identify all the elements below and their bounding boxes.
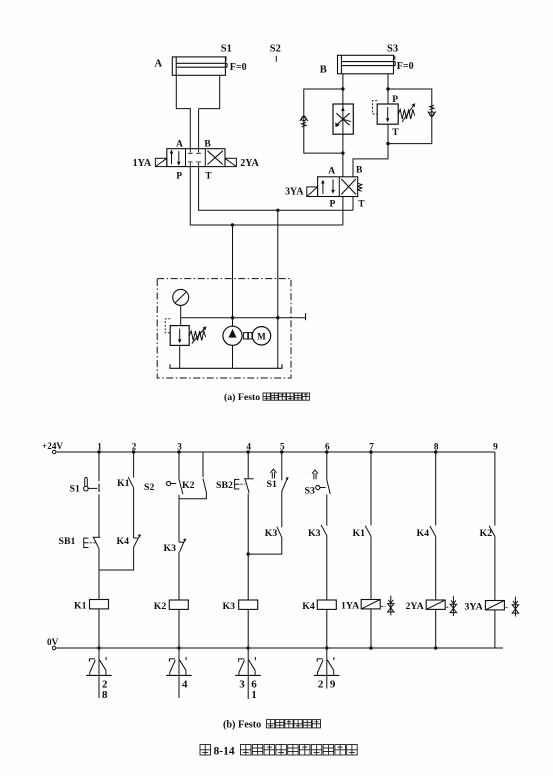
S3 position tick xyxy=(394,56,396,60)
pushbutton SB2 actuator xyxy=(235,479,240,489)
svg-text:S1: S1 xyxy=(267,479,277,490)
switch S2 NO contact xyxy=(179,479,183,494)
svg-text:(b) Festo: (b) Festo xyxy=(223,720,261,731)
svg-text:0V: 0V xyxy=(47,637,59,647)
svg-text:7: 7 xyxy=(369,442,374,452)
svg-text:5: 5 xyxy=(280,442,285,452)
power unit enclosure (dash-dot) xyxy=(157,279,291,378)
wire counterbalance T to valve V2 B port xyxy=(353,124,388,177)
svg-text:S2: S2 xyxy=(270,44,281,55)
+24V rail terminal xyxy=(53,450,56,453)
svg-text:M: M xyxy=(257,332,266,342)
cylinder S1 (left, A) xyxy=(172,57,225,75)
valve V2 4/2-way (3YA) body xyxy=(318,177,358,197)
wire flow control to valve V2 A port xyxy=(342,134,344,177)
wire rung5 to rung4 join xyxy=(248,537,282,554)
svg-text:3: 3 xyxy=(239,679,245,691)
flow control valve FC1 throttle arcs xyxy=(336,113,349,125)
switch S1 plunger contact (rung1) xyxy=(98,484,100,492)
solenoid 3YA box xyxy=(307,187,318,197)
counterbalance valve CB1 pilot dashed box xyxy=(373,101,378,114)
valve V2 spring xyxy=(358,183,362,191)
wire coil K2 to 0V xyxy=(178,609,180,648)
coupling pump-motor xyxy=(244,333,248,339)
svg-text:S3: S3 xyxy=(387,44,398,55)
svg-text:S3: S3 xyxy=(305,486,315,497)
contact-mirror NC glyph xyxy=(239,660,245,673)
contact-mirror NC glyph xyxy=(318,660,324,673)
node cylinder2 right port junction xyxy=(386,87,389,90)
solenoid 3YA valve indicator xyxy=(514,597,516,617)
svg-text:2YA: 2YA xyxy=(406,601,424,612)
svg-text:3: 3 xyxy=(177,442,182,452)
solenoid 1YA box xyxy=(155,158,166,166)
node flow-control branch lower junction xyxy=(341,151,344,154)
test port terminator xyxy=(305,313,307,320)
node pump supply junction xyxy=(231,223,234,226)
svg-text:K2: K2 xyxy=(480,528,493,539)
0V rail junction nodes xyxy=(97,646,100,649)
svg-text:9: 9 xyxy=(493,442,498,452)
S1 approach arrow (rung5) xyxy=(271,472,273,478)
solenoid coil 3YA xyxy=(485,601,504,610)
svg-text:K4: K4 xyxy=(417,528,430,539)
wire relief valve to tank xyxy=(179,345,181,368)
contact-mirror crossbar xyxy=(86,674,112,676)
wire rung4 upper xyxy=(247,452,249,479)
svg-text:SB2: SB2 xyxy=(216,480,233,491)
wire rung8 upper xyxy=(435,452,437,526)
cylinder S3 (right, B) xyxy=(338,55,394,74)
contact-mirror NO glyph xyxy=(327,660,334,670)
valve V1 left position arrows xyxy=(171,152,173,165)
node return-gauge line junction xyxy=(276,316,279,319)
svg-text:1: 1 xyxy=(251,689,257,701)
tank symbol xyxy=(170,364,282,368)
contact K4 NO (rung8) xyxy=(430,526,436,537)
svg-text:K3: K3 xyxy=(223,601,236,612)
svg-text:4: 4 xyxy=(182,679,188,691)
contact K1 NO (rung7) xyxy=(365,526,371,537)
pushbutton SB1 NC contact xyxy=(93,536,101,538)
svg-text:P: P xyxy=(330,200,336,210)
relay coil K4 xyxy=(317,600,336,609)
flow control valve FC1 body xyxy=(333,104,353,134)
wire coil K3 to 0V xyxy=(247,609,249,648)
relief valve RV1 pilot dashed box xyxy=(165,319,170,333)
parallel branch contact K2 (rung3) xyxy=(202,452,204,477)
S3 approach arrow xyxy=(313,473,315,479)
contact-mirror NO glyph xyxy=(99,660,106,670)
counterbalance valve CB1 adjust arrow xyxy=(402,106,414,123)
node tank return junction xyxy=(276,209,279,212)
relay contact-mirror centre line xyxy=(247,648,249,699)
wire coil 1YA to 0V xyxy=(370,609,372,648)
relay contact-mirror centre line xyxy=(326,648,328,689)
valve V1 right position crossed arrows xyxy=(208,151,223,165)
S2 position tick xyxy=(275,56,277,62)
svg-text:A: A xyxy=(155,59,163,70)
svg-text:1YA: 1YA xyxy=(133,158,152,169)
svg-text:3YA: 3YA xyxy=(285,187,304,198)
svg-text:K1: K1 xyxy=(117,478,130,489)
svg-text:4: 4 xyxy=(246,442,251,452)
switch S3 actuator xyxy=(316,485,320,489)
relay coil K3 xyxy=(239,600,258,609)
contact-mirror crossbar xyxy=(314,674,340,676)
flow control valve FC1 through-line and arrow xyxy=(342,104,344,134)
check valve CV2 (right bypass) xyxy=(430,105,434,110)
pushbutton SB2 NC contact xyxy=(244,478,254,480)
wire rung2 to rung1 join xyxy=(99,548,134,571)
svg-text:A: A xyxy=(328,166,335,176)
wire left branch to check valve xyxy=(304,89,343,153)
svg-text:K2: K2 xyxy=(182,480,195,491)
svg-text:2: 2 xyxy=(318,679,324,691)
pump P1 xyxy=(223,326,242,345)
node counterbalance outlet junction xyxy=(386,142,389,145)
svg-text:K4: K4 xyxy=(302,601,315,612)
wire valve V1 P port to pressure line xyxy=(190,167,343,225)
wire pump suction to tank xyxy=(232,345,234,368)
svg-text:A: A xyxy=(176,140,183,150)
svg-text:K3: K3 xyxy=(308,528,321,539)
svg-text:1: 1 xyxy=(97,442,102,452)
svg-text:K1: K1 xyxy=(74,600,87,611)
S1 position tick xyxy=(225,56,227,61)
node cylinder2 left port junction xyxy=(341,87,344,90)
solenoid 1YA valve indicator xyxy=(390,596,392,616)
svg-text:B: B xyxy=(356,166,363,176)
counterbalance valve CB1 spring xyxy=(398,109,414,119)
contact K1 NO (rung2) xyxy=(128,477,133,488)
wire valve V2 T port to tank line xyxy=(352,197,354,211)
svg-text:9: 9 xyxy=(330,679,336,691)
svg-text:B: B xyxy=(204,140,211,150)
svg-text:S1: S1 xyxy=(70,483,80,494)
svg-text:3YA: 3YA xyxy=(465,601,483,612)
svg-text:P: P xyxy=(392,95,398,105)
svg-text:8-14: 8-14 xyxy=(214,746,235,758)
pressure gauge G1 xyxy=(173,289,189,305)
valve V1 centre closed-port symbols xyxy=(189,149,191,153)
relief valve RV1 internal arrow xyxy=(179,329,181,342)
svg-text:T: T xyxy=(392,128,399,138)
wire rung9 upper xyxy=(494,452,496,526)
rail junction nodes xyxy=(97,450,100,453)
svg-text:K1: K1 xyxy=(353,528,366,539)
wire pump supply riser xyxy=(232,225,234,326)
contact-mirror crossbar xyxy=(235,674,261,676)
wire valve V2 P port to pressure line xyxy=(342,197,344,226)
counterbalance valve CB1 internal arrow xyxy=(387,107,389,120)
wire cylinder1 right port to valve B line xyxy=(199,75,220,148)
svg-text:S1: S1 xyxy=(221,44,232,55)
wire gauge to relief valve xyxy=(180,305,182,325)
svg-text:F=0: F=0 xyxy=(230,62,247,73)
svg-text:K3: K3 xyxy=(164,543,177,554)
contact-mirror crossbar xyxy=(166,674,192,676)
wire rung5 upper xyxy=(281,452,283,480)
svg-text:2YA: 2YA xyxy=(240,158,259,169)
relay coil K2 xyxy=(169,600,188,609)
valve V1 4/3-way (1YA/2YA) body xyxy=(167,149,225,167)
svg-text:P: P xyxy=(176,172,182,182)
wire rung1 upper xyxy=(98,452,100,481)
contact-mirror NC glyph xyxy=(90,660,96,673)
wire cylinder2 left port down xyxy=(342,74,344,104)
svg-text:T: T xyxy=(205,172,212,182)
valve V2 right position crossed arrows xyxy=(341,179,356,195)
svg-text:K3: K3 xyxy=(265,528,278,539)
svg-text:K2: K2 xyxy=(154,601,167,612)
contact K2 NO (rung9) xyxy=(489,526,495,537)
svg-text:2: 2 xyxy=(132,442,137,452)
contact-mirror NO glyph xyxy=(179,660,186,670)
relief valve RV1 adjust arrow xyxy=(192,329,205,344)
relay coil K1 xyxy=(90,600,109,609)
figure caption 8-14 xyxy=(200,745,211,756)
0V rail terminal xyxy=(52,646,55,649)
wire coil 3YA to 0V xyxy=(494,610,496,648)
solenoid coil 1YA xyxy=(361,600,380,609)
wire coil K1 to 0V xyxy=(98,609,100,648)
contact-mirror NC glyph xyxy=(170,660,176,673)
relay contact-mirror centre line xyxy=(98,648,100,698)
switch S1 contact (rung5) xyxy=(282,479,288,492)
wire coil K4 to 0V xyxy=(326,609,328,648)
wire cylinder2 right port down xyxy=(387,74,389,104)
check valve CV1 (left bypass) xyxy=(302,116,306,120)
svg-text:8: 8 xyxy=(102,689,108,701)
contact-mirror NO glyph xyxy=(249,660,256,670)
wire valve V1 T port to tank line xyxy=(199,167,353,211)
svg-text:K4: K4 xyxy=(117,536,130,547)
pushbutton SB1 actuator xyxy=(84,538,89,547)
relay contact-mirror centre line xyxy=(178,648,180,698)
valve V2 left position arrows xyxy=(322,182,324,194)
contact K3 NC (rung3) xyxy=(179,541,184,543)
svg-text:SB1: SB1 xyxy=(59,536,76,547)
contact K3 NO (rung6) xyxy=(321,525,327,536)
relief valve RV1 body xyxy=(170,326,189,346)
svg-text:8: 8 xyxy=(434,442,439,452)
relief valve RV1 spring xyxy=(189,331,205,341)
svg-text:B: B xyxy=(320,65,327,76)
wire tank return riser xyxy=(277,210,279,368)
motor M1 xyxy=(252,327,270,345)
counterbalance valve CB1 body xyxy=(377,104,398,124)
svg-text:S2: S2 xyxy=(144,482,154,493)
wire rung3 upper xyxy=(178,452,180,479)
switch S1 actuator symbol xyxy=(85,477,88,486)
svg-text:F=0: F=0 xyxy=(397,61,414,72)
contact K3 NO (rung5) xyxy=(277,527,282,538)
node rung4/rung5 join xyxy=(247,552,250,555)
wire right branch to check valve CV2 xyxy=(388,89,432,144)
svg-text:+24V: +24V xyxy=(42,441,63,451)
svg-text:T: T xyxy=(358,200,365,210)
solenoid 2YA box xyxy=(225,158,236,166)
wire cylinder1 left port to valve A line xyxy=(176,75,190,148)
switch S2 actuator xyxy=(167,481,171,485)
wire rung2 upper xyxy=(133,452,135,478)
svg-text:(a) Festo: (a) Festo xyxy=(224,392,260,403)
solenoid 2YA valve indicator xyxy=(452,596,454,616)
0V return rail xyxy=(56,647,503,649)
svg-text:1YA: 1YA xyxy=(341,600,359,611)
contact K4 (rung2) xyxy=(134,537,138,539)
switch S3 NO contact xyxy=(327,480,330,494)
wire rung6 upper xyxy=(326,452,328,480)
wire coil 2YA to 0V xyxy=(435,609,437,648)
gauge/test line xyxy=(181,317,306,319)
solenoid coil 2YA xyxy=(426,600,445,609)
wire rung7 upper xyxy=(370,452,372,525)
svg-text:6: 6 xyxy=(325,442,330,452)
node supply-gauge line crossing xyxy=(231,316,234,319)
+24V supply rail xyxy=(56,451,495,453)
